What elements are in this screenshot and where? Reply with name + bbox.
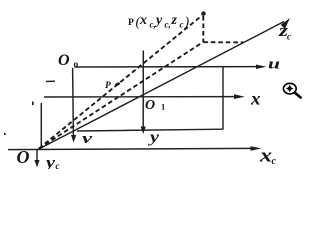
node P dot	[201, 11, 205, 15]
arrowhead v-axis	[71, 135, 76, 143]
wire y-axis line	[142, 51, 144, 129]
svg-text:x: x	[139, 13, 147, 28]
magnifier cursor icon	[283, 83, 301, 98]
svg-text:x: x	[250, 88, 261, 108]
wire stray tick left	[46, 80, 55, 82]
arrowhead u-axis	[256, 65, 267, 70]
svg-text:O: O	[17, 147, 30, 167]
svg-text:1: 1	[161, 102, 165, 112]
svg-text:c: c	[287, 31, 291, 41]
svg-text:c: c	[272, 156, 277, 167]
arrowhead zc-axis	[281, 18, 290, 29]
arrowhead x-axis	[234, 94, 245, 99]
svg-text:O: O	[145, 98, 155, 113]
wire zc-axis line	[37, 22, 284, 151]
label xc axis	[259, 146, 277, 168]
svg-text:u: u	[268, 57, 280, 73]
wire image-rect right edge	[222, 67, 224, 130]
wire image-rect bottom edge	[77, 129, 223, 131]
svg-text:y: y	[43, 155, 56, 170]
svg-text:P: P	[105, 81, 111, 91]
svg-text:c: c	[56, 161, 60, 169]
svg-text:y: y	[147, 129, 160, 146]
label O1 principal point	[145, 98, 165, 113]
wire v-axis line	[72, 68, 75, 137]
svg-text:O: O	[58, 52, 70, 69]
arrowhead y-axis	[141, 127, 146, 135]
svg-text:y: y	[154, 13, 163, 28]
svg-text:v: v	[82, 131, 92, 147]
svg-text:,: ,	[168, 20, 171, 30]
svg-text:z: z	[171, 13, 178, 28]
svg-text:c: c	[180, 20, 184, 30]
arrowhead xc-axis	[251, 146, 262, 151]
arrowhead yc-axis	[34, 160, 39, 167]
speck artifact left	[32, 102, 34, 106]
node p dot on image plane	[114, 82, 120, 87]
wire yc-axis lower segment	[36, 150, 38, 161]
wire xc-axis line	[8, 148, 254, 149]
label yc axis	[43, 155, 59, 172]
wire dashed vertical P drop	[202, 16, 204, 42]
wire yc-axis upper segment	[40, 103, 42, 147]
label P(xc,yc,zc)	[128, 13, 190, 30]
label Zc axis	[278, 21, 291, 42]
speck artifact far-left	[4, 133, 6, 135]
wire x-axis line	[44, 96, 238, 98]
wire u-axis line	[75, 66, 260, 68]
label O0 origin pixel coords	[58, 52, 79, 70]
wire dashed ray O to box corner	[39, 42, 203, 148]
wire dashed horizontal to zc axis	[203, 41, 243, 43]
svg-text:): )	[184, 15, 190, 30]
wire dashed ray O to P	[39, 16, 202, 149]
svg-text:P: P	[128, 18, 134, 28]
svg-text:o: o	[74, 60, 79, 70]
